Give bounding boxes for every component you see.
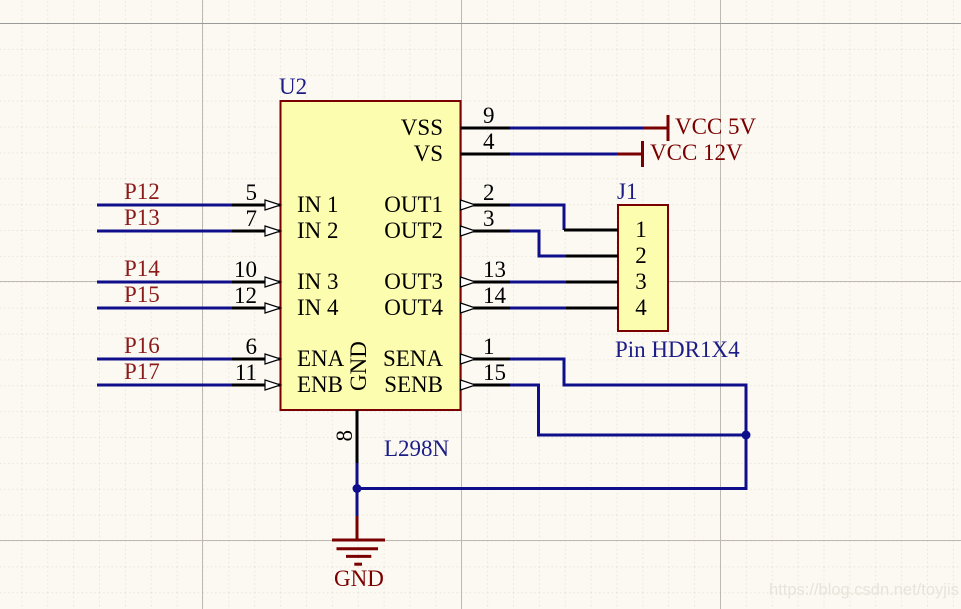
J1 pin 4 xyxy=(566,295,647,320)
pin 4 (VS) xyxy=(414,129,510,166)
value label L298N xyxy=(384,436,450,461)
svg-text:3: 3 xyxy=(483,206,495,231)
net label P13 xyxy=(124,205,160,230)
svg-text:P12: P12 xyxy=(124,179,160,204)
svg-text:2: 2 xyxy=(483,180,495,205)
wire OUT1 to J1 pin1 xyxy=(510,205,564,230)
svg-text:P13: P13 xyxy=(124,205,160,230)
svg-text:15: 15 xyxy=(483,360,506,385)
svg-text:L298N: L298N xyxy=(384,436,450,461)
designator J1 xyxy=(617,179,637,204)
pin 13 (OUT3) xyxy=(384,257,510,294)
power ground GND xyxy=(332,516,385,591)
pin 7 (IN 2) xyxy=(232,206,339,243)
svg-text:11: 11 xyxy=(235,360,257,385)
junction GND bus xyxy=(353,484,362,493)
svg-text:GND: GND xyxy=(334,566,384,591)
wire VSS to VCC 5V xyxy=(510,127,643,130)
power port VCC 5V xyxy=(643,114,757,141)
designator U2 xyxy=(279,74,307,99)
svg-text:GND: GND xyxy=(346,341,371,391)
pin 12 (IN 4) xyxy=(232,283,339,320)
svg-text:IN 1: IN 1 xyxy=(297,192,339,217)
wire SENB net xyxy=(357,385,746,489)
svg-text:VS: VS xyxy=(414,141,443,166)
wire OUT4 to J1 pin4 xyxy=(510,307,566,310)
connector J1 body xyxy=(618,205,668,331)
svg-text:12: 12 xyxy=(234,283,257,308)
wire net P12 to IN1 xyxy=(97,204,232,207)
wire SENA net xyxy=(509,359,746,435)
pin 10 (IN 3) xyxy=(232,257,339,294)
svg-text:ENB: ENB xyxy=(297,372,343,397)
svg-text:6: 6 xyxy=(246,334,258,359)
svg-text:OUT4: OUT4 xyxy=(384,295,443,320)
wire net P13 to IN2 xyxy=(97,230,232,233)
svg-text:14: 14 xyxy=(483,283,507,308)
pin 11 (ENB) xyxy=(232,360,343,397)
svg-text:3: 3 xyxy=(635,269,647,294)
svg-text:OUT1: OUT1 xyxy=(384,192,443,217)
svg-text:1: 1 xyxy=(483,334,495,359)
pin 3 (OUT2) xyxy=(384,206,510,243)
pin 1 (SENA) xyxy=(383,334,510,371)
svg-text:7: 7 xyxy=(246,206,258,231)
pin 6 (ENA) xyxy=(232,334,345,371)
IC U2 body xyxy=(281,101,461,410)
pin 2 (OUT1) xyxy=(384,180,510,217)
pin 9 (VSS) xyxy=(401,103,510,140)
junction SENB bus xyxy=(742,431,751,440)
J1 pin 3 xyxy=(566,269,647,294)
svg-text:IN 3: IN 3 xyxy=(297,269,339,294)
svg-text:8: 8 xyxy=(332,430,357,442)
svg-text:P16: P16 xyxy=(124,333,160,358)
svg-text:SENB: SENB xyxy=(384,372,443,397)
svg-text:J1: J1 xyxy=(617,179,637,204)
net label P16 xyxy=(124,333,160,358)
svg-text:SENA: SENA xyxy=(383,346,443,371)
power port VCC 12V xyxy=(617,140,743,167)
wire net P14 to IN3 xyxy=(97,281,232,284)
svg-text:Pin HDR1X4: Pin HDR1X4 xyxy=(615,337,740,362)
svg-text:ENA: ENA xyxy=(297,346,345,371)
svg-text:https://blog.csdn.net/toyjis: https://blog.csdn.net/toyjis xyxy=(769,581,959,599)
svg-text:P14: P14 xyxy=(124,256,160,281)
net label P12 xyxy=(124,179,160,204)
J1 pin 1 xyxy=(564,217,647,242)
wire net P17 to ENB xyxy=(97,384,232,387)
net label P14 xyxy=(124,256,160,281)
svg-text:1: 1 xyxy=(635,217,647,242)
pin 8 (GND) xyxy=(332,341,371,463)
svg-text:P15: P15 xyxy=(124,282,160,307)
svg-text:13: 13 xyxy=(483,257,506,282)
svg-text:U2: U2 xyxy=(279,74,307,99)
svg-text:IN 2: IN 2 xyxy=(297,218,339,243)
pin 14 (OUT4) xyxy=(384,283,510,320)
svg-text:VSS: VSS xyxy=(401,115,443,140)
svg-text:VCC 12V: VCC 12V xyxy=(650,140,743,165)
svg-text:4: 4 xyxy=(483,129,495,154)
svg-text:OUT2: OUT2 xyxy=(384,218,443,243)
wire net P15 to IN4 xyxy=(97,307,232,310)
svg-text:VCC 5V: VCC 5V xyxy=(675,114,757,139)
pin 15 (SENB) xyxy=(384,360,510,397)
wire OUT2 to J1 pin2 xyxy=(510,231,566,256)
svg-text:2: 2 xyxy=(635,243,647,268)
net label P17 xyxy=(124,359,160,384)
svg-text:P17: P17 xyxy=(124,359,160,384)
wire GND vertical xyxy=(356,463,359,516)
wire OUT3 to J1 pin3 xyxy=(510,281,566,284)
svg-text:4: 4 xyxy=(635,295,647,320)
wire net P16 to ENA xyxy=(97,358,232,361)
pin 5 (IN 1) xyxy=(232,180,339,217)
svg-text:IN 4: IN 4 xyxy=(297,295,339,320)
comment label Pin HDR1X4 xyxy=(615,337,740,362)
svg-text:OUT3: OUT3 xyxy=(384,269,443,294)
wire VS to VCC 12V xyxy=(510,153,618,156)
svg-text:10: 10 xyxy=(234,257,257,282)
net label P15 xyxy=(124,282,160,307)
J1 pin 2 xyxy=(566,243,647,268)
svg-text:9: 9 xyxy=(483,103,495,128)
svg-text:5: 5 xyxy=(246,180,258,205)
